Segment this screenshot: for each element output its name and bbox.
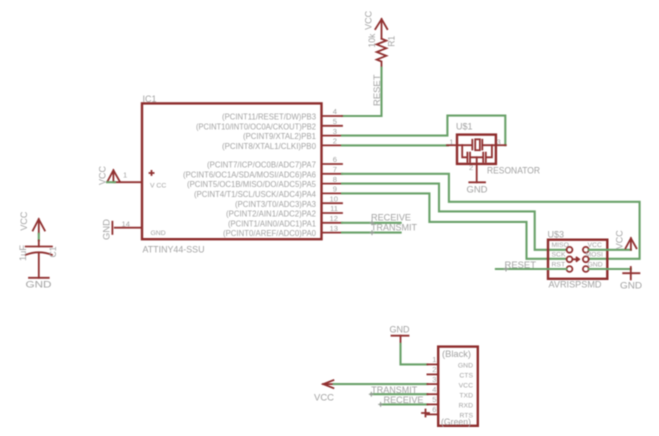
svg-text:U$3: U$3 (548, 230, 565, 240)
svg-text:GND: GND (26, 279, 53, 289)
pin 7 stub (322, 173, 343, 175)
svg-text:3: 3 (333, 127, 337, 136)
svg-text:(PCINT5/OC1B/MISO/DO/ADC5)PA5: (PCINT5/OC1B/MISO/DO/ADC5)PA5 (187, 179, 316, 189)
wire XTAL1: IC pin 2 to resonator pin 1 (342, 144, 448, 146)
svg-text:RECEIVE: RECEIVE (384, 395, 424, 405)
RTS unconnected cross (422, 410, 429, 417)
svg-text:ATTINY44-SSU: ATTINY44-SSU (143, 245, 205, 255)
pin 1 stub (447, 144, 457, 146)
svg-text:11: 11 (330, 204, 338, 213)
svg-text:1: 1 (432, 355, 436, 364)
wire VCC to FTDI pin 3 (334, 383, 428, 385)
supply symbol VCC (ISP) (615, 230, 637, 250)
wire RESET vertical + to IC pin 4 (342, 68, 382, 116)
svg-text:(PCINT1/AIN0/ADC1)PA1: (PCINT1/AIN0/ADC1)PA1 (228, 218, 316, 228)
IC1 ATTINY44 box (142, 103, 322, 239)
wire RECEIVE to FTDI pin 5 (381, 403, 428, 405)
resonator U$1 (447, 121, 540, 182)
ISP connector U$3 (548, 230, 608, 290)
capacitor C1 (18, 240, 58, 277)
ground symbol (IC pin 14) (102, 218, 113, 240)
svg-text:2: 2 (469, 163, 473, 172)
+ mark inside box (150, 171, 154, 175)
svg-text:(PCINT2/AIN1/ADC2)PA2: (PCINT2/AIN1/ADC2)PA2 (226, 209, 316, 219)
IC left pin 14 (GND) (115, 220, 166, 237)
ground symbol (C1) (26, 278, 53, 290)
supply symbol VCC (IC pin 1) (98, 166, 120, 185)
SCK clock arrow (573, 258, 580, 262)
svg-text:4: 4 (333, 107, 337, 116)
supply symbol VCC (FTDI, pointing left) (314, 380, 335, 402)
pin 8 stub (322, 183, 343, 185)
svg-text:10: 10 (330, 194, 338, 203)
svg-text:GND: GND (620, 281, 643, 291)
pin 10 stub (322, 202, 343, 204)
supply symbol VCC (top, above R1) (364, 10, 388, 38)
svg-text:VCC: VCC (364, 10, 374, 29)
ground symbol (ISP) (620, 267, 643, 291)
svg-text:2: 2 (333, 137, 337, 146)
svg-text:VCC: VCC (615, 230, 625, 249)
svg-text:SCK: SCK (552, 252, 566, 259)
svg-text:6: 6 (333, 155, 337, 164)
svg-text:1: 1 (449, 138, 453, 147)
svg-text:(PCINT7/ICP/OC0B/ADC7)PA7: (PCINT7/ICP/OC0B/ADC7)PA7 (207, 160, 316, 170)
resistor R1 (367, 33, 396, 68)
pin numbers (432, 355, 436, 414)
svg-text:2: 2 (432, 365, 436, 374)
svg-text:9: 9 (333, 185, 337, 194)
IC pin labels (inside box, right aligned) (183, 112, 316, 239)
pin 2 to ground (476, 164, 478, 182)
svg-text:3: 3 (432, 375, 436, 384)
svg-text:AVRISPSMD: AVRISPSMD (549, 280, 603, 290)
svg-text:RST: RST (552, 262, 566, 269)
wire RESET to ISP RST (496, 268, 567, 270)
pin labels (458, 362, 474, 419)
svg-text:GND: GND (102, 218, 112, 240)
svg-text:RECEIVE: RECEIVE (371, 213, 411, 223)
pin 3 stub (427, 383, 438, 385)
crystal + caps internals (457, 139, 496, 164)
pin 2 stub (427, 373, 438, 375)
svg-text:TXD: TXD (459, 392, 473, 399)
svg-text:GND: GND (151, 230, 166, 237)
pin 9 stub (322, 192, 343, 194)
ground symbol (above FTDI) (390, 324, 411, 343)
svg-text:(PCINT6/OC1A/SDA/MOSI/ADC6)PA6: (PCINT6/OC1A/SDA/MOSI/ADC6)PA6 (183, 169, 316, 179)
IC right pin numbers (330, 107, 338, 233)
svg-text:GND: GND (588, 262, 603, 269)
svg-text:5: 5 (333, 117, 337, 126)
svg-text:RESET: RESET (372, 74, 382, 106)
svg-text:3: 3 (497, 138, 501, 147)
svg-text:12: 12 (330, 214, 338, 223)
wire TRANSMIT from IC pin 13 (342, 232, 401, 234)
svg-text:GND: GND (458, 362, 473, 369)
pin 1 stub (427, 363, 438, 365)
svg-text:U$1: U$1 (456, 121, 473, 131)
wire TRANSMIT to FTDI pin 4 (371, 393, 427, 395)
pin 11 stub (322, 212, 343, 214)
pin circles left column: MISO, SCK, RST (567, 247, 573, 253)
svg-text:5: 5 (432, 395, 436, 404)
wire MOSI: IC pin 7 to ISP MOSI (342, 174, 640, 259)
svg-text:GND: GND (467, 185, 489, 195)
svg-text:4: 4 (432, 385, 436, 394)
IC left pin 1 (VCC) (115, 171, 166, 190)
pin 3 stub (322, 135, 343, 137)
wire ISP VCC (589, 249, 631, 251)
svg-text:13: 13 (330, 224, 338, 233)
svg-text:(PCINT3/T0/ADC3)PA3: (PCINT3/T0/ADC3)PA3 (235, 199, 316, 209)
pin stubs (427, 364, 438, 414)
pin 12 stub (322, 222, 343, 224)
pin 4 stub (322, 115, 343, 117)
wire VCC to C1 (38, 234, 40, 241)
pin 13 stub (322, 232, 343, 234)
svg-text:(PCINT11/RESET/DW)PB3: (PCINT11/RESET/DW)PB3 (222, 112, 316, 122)
svg-text:CTS: CTS (459, 372, 473, 379)
svg-text:TRANSMIT: TRANSMIT (371, 222, 418, 232)
svg-text:VCC: VCC (588, 242, 602, 249)
wire RECEIVE from IC pin 12 (342, 222, 401, 224)
svg-text:VCC: VCC (459, 382, 473, 389)
svg-text:MOSI: MOSI (586, 252, 603, 259)
wire XTAL2: IC pin 3 to resonator pin 3 (342, 116, 505, 146)
svg-text:6: 6 (432, 405, 436, 414)
svg-text:(PCINT0/AREF/ADC0)PA0: (PCINT0/AREF/ADC0)PA0 (223, 228, 316, 238)
pin 6 stub (427, 413, 438, 415)
FTDI connector box (422, 347, 478, 427)
svg-text:RTS: RTS (460, 412, 474, 419)
svg-text:(Black): (Black) (442, 349, 471, 359)
IC right-side pin stubs (322, 116, 343, 233)
pin circles right column: VCC, MOSI, GND (583, 247, 589, 253)
wire ISP GND (589, 268, 631, 270)
svg-text:VCC: VCC (314, 393, 335, 403)
pin 3 stub (496, 144, 506, 146)
wire SCK: IC pin 9 to ISP SCK (342, 193, 567, 258)
svg-text:RESONATOR: RESONATOR (487, 166, 540, 176)
svg-text:14: 14 (122, 220, 130, 229)
svg-text:(PCINT4/T1/SCL/USCK/ADC4)PA4: (PCINT4/T1/SCL/USCK/ADC4)PA4 (194, 189, 316, 199)
svg-text:RESET: RESET (505, 260, 537, 270)
svg-text:MISO: MISO (552, 242, 569, 249)
svg-text:C1: C1 (48, 247, 58, 258)
pin 5 stub (322, 125, 343, 127)
supply symbol VCC (C1) (19, 211, 45, 234)
pin 5 stub (427, 403, 438, 405)
svg-text:R1: R1 (386, 36, 396, 47)
pin 2 stub (322, 144, 343, 146)
svg-text:IC1: IC1 (143, 94, 157, 104)
svg-text:(PCINT9/XTAL2)PB1: (PCINT9/XTAL2)PB1 (243, 131, 316, 141)
svg-text:V CC: V CC (150, 182, 166, 189)
svg-text:GND: GND (390, 324, 411, 334)
pin 6 stub (322, 163, 343, 165)
wire GND to FTDI pin 1 (401, 344, 428, 365)
svg-text:(PCINT10/INT0/OC0A/CKOUT)PB2: (PCINT10/INT0/OC0A/CKOUT)PB2 (196, 121, 316, 131)
svg-text:TRANSMIT: TRANSMIT (371, 385, 418, 395)
wire MISO: IC pin 8 to ISP MISO (342, 184, 567, 250)
svg-text:10k: 10k (367, 33, 377, 47)
svg-text:VCC: VCC (98, 166, 108, 185)
svg-text:1uF: 1uF (18, 244, 28, 261)
svg-text:1: 1 (123, 171, 127, 180)
svg-text:7: 7 (333, 165, 337, 174)
svg-text:RXD: RXD (459, 402, 473, 409)
ground symbol (resonator) (467, 182, 489, 194)
svg-text:8: 8 (333, 175, 337, 184)
svg-text:(PCINT8/XTAL1/CLKI)PB0: (PCINT8/XTAL1/CLKI)PB0 (222, 141, 316, 151)
pin 4 stub (427, 393, 438, 395)
svg-text:VCC: VCC (19, 211, 29, 230)
